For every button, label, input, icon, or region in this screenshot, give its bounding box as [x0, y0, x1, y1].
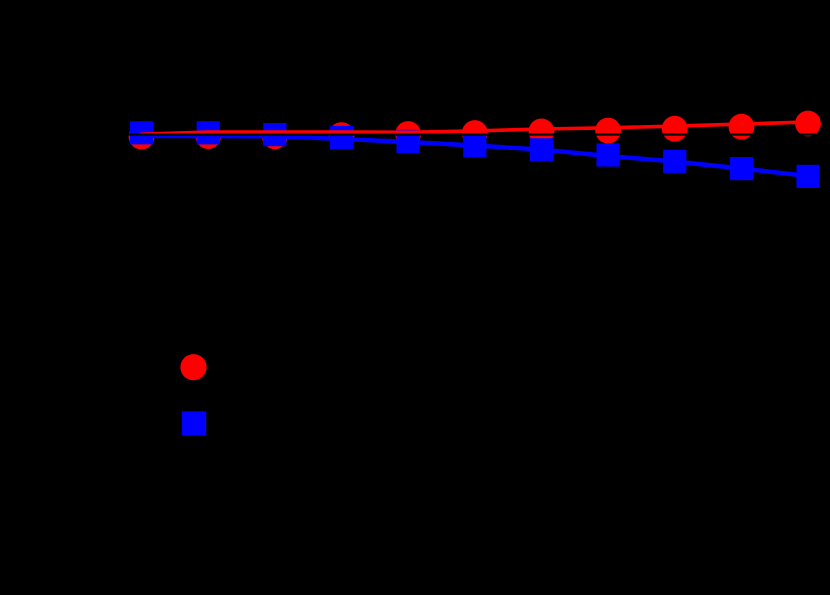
- red data point 8 (circle): [595, 118, 621, 144]
- red data point 6 (circle): [462, 120, 488, 146]
- blue data point 9 (square): [663, 150, 686, 173]
- black horizontal reference line at y=1 (drawn on top): [108, 133, 829, 135]
- red data point 1 (circle): [129, 124, 155, 150]
- red data point 11 (circle): [795, 111, 821, 137]
- red data point 9 (circle): [662, 116, 688, 142]
- blue data point 6 (square): [463, 134, 486, 157]
- svg-text:y: y: [25, 253, 35, 275]
- red data point 4 (circle): [329, 122, 355, 148]
- red data point 2 (circle): [195, 123, 221, 149]
- blue data point 7 (square): [530, 138, 553, 161]
- blue data point 3 (square): [263, 123, 286, 146]
- blue data point 1 (square): [130, 121, 153, 144]
- red data point 3 (circle): [262, 123, 288, 149]
- red data point 7 (circle): [529, 118, 555, 144]
- blue data point 2 (square): [197, 121, 220, 144]
- red data point 10 (circle): [729, 114, 755, 140]
- blue data point 4 (square): [330, 126, 353, 149]
- red series line: [142, 122, 809, 134]
- blue data point 11 (square): [796, 165, 819, 188]
- blue data point 8 (square): [597, 143, 620, 166]
- legend sample marker: blue square: [182, 411, 206, 435]
- plot frame (black, invisible on black background): [108, 54, 829, 484]
- red data point 5 (circle): [395, 121, 421, 147]
- blue series line: [142, 136, 809, 176]
- svg-text:x: x: [415, 543, 425, 565]
- legend sample marker: red circle: [180, 354, 206, 380]
- blue data point 10 (square): [730, 157, 753, 180]
- svg-text:series B: series B: [215, 413, 280, 433]
- blue data point 5 (square): [397, 130, 420, 153]
- svg-text:series A: series A: [215, 357, 279, 377]
